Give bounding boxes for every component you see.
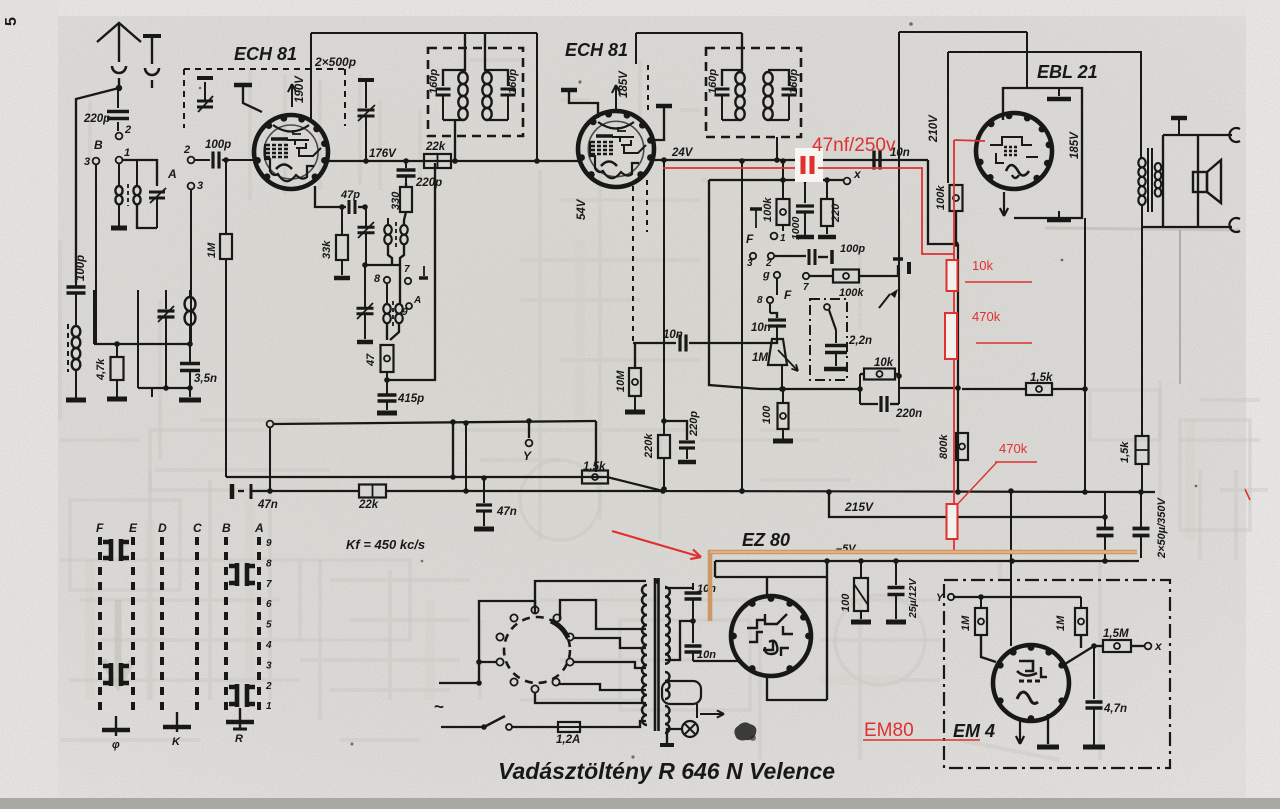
svg-text:A: A (413, 295, 421, 306)
pilot lamp loop (662, 681, 701, 704)
terminal Y (528, 421, 530, 438)
terminal X (1131, 645, 1144, 647)
IF transformer 2 dashed box (706, 48, 801, 137)
svg-text:9: 9 (266, 538, 272, 549)
band switch contact pair B-A upper (229, 563, 255, 586)
filter cap 1 2x50uF (1104, 492, 1106, 527)
svg-text:1,5M: 1,5M (1103, 628, 1129, 640)
terminal 3 AF (750, 253, 756, 259)
wire 270 to 47n bus (269, 427, 271, 491)
ghost boxes texture (70, 390, 1250, 710)
ground jack (143, 34, 161, 38)
EM4 ground right (1047, 714, 1049, 744)
selector feed wires (479, 601, 535, 683)
speaker (1193, 172, 1207, 192)
svg-text:415p: 415p (397, 393, 424, 405)
wire caps to tube heater (693, 660, 738, 662)
svg-text:220p: 220p (688, 411, 700, 437)
switch inside box (824, 304, 830, 310)
svg-text:7: 7 (404, 264, 410, 275)
mains live wire (439, 682, 479, 684)
ground 25uF (886, 620, 906, 625)
osc section wire y265 (365, 264, 400, 266)
wire HV bottom tap (665, 621, 693, 660)
power transformer heater winding 1 (665, 672, 670, 699)
wire y389 to parallel RC (782, 388, 860, 390)
selector top wire to transformer (535, 581, 646, 607)
svg-text:2×500p: 2×500p (314, 55, 356, 69)
svg-text:185V: 185V (1069, 131, 1081, 159)
svg-text:4: 4 (265, 640, 272, 651)
ferrite rod coil (75, 283, 77, 287)
ground 4.7n (1083, 745, 1105, 750)
oscillator transformer right coil (404, 212, 406, 225)
EZ80 right wire (826, 561, 828, 700)
selector tap wire 2 (560, 600, 646, 629)
svg-text:8: 8 (374, 273, 381, 285)
svg-text:470k: 470k (972, 309, 1001, 324)
mains switch (441, 726, 483, 728)
HV tap to rectifier caps (665, 587, 693, 589)
ground mid stem (151, 388, 153, 397)
ground ferrite coil (66, 398, 86, 403)
svg-text:~: ~ (434, 697, 444, 716)
47n bus C (230, 484, 235, 499)
top bus segment 3 (636, 32, 742, 34)
AVC bus A y422 (267, 421, 274, 428)
core dashes of coupling coil (127, 184, 129, 206)
EBL box top (948, 51, 1142, 53)
faded vertical below speaker (1179, 230, 1181, 384)
AM line to volume pot (689, 339, 777, 343)
svg-text:x: x (1154, 639, 1163, 653)
svg-text:10M: 10M (615, 370, 627, 392)
svg-text:F: F (746, 232, 754, 246)
EM4 dash-dot box (944, 580, 1170, 768)
svg-text:B: B (94, 138, 103, 152)
bar bottom in box (824, 367, 848, 372)
main bus y161 right of tube2 (650, 159, 928, 161)
terminal 2 mid (188, 157, 195, 164)
svg-text:2: 2 (183, 144, 190, 156)
svg-text:33k: 33k (321, 240, 333, 259)
svg-text:1M: 1M (206, 242, 218, 258)
svg-text:1M: 1M (960, 615, 972, 631)
red arrow to heater line (612, 531, 701, 557)
svg-text:54V: 54V (576, 198, 588, 220)
svg-text:190V: 190V (294, 75, 306, 103)
antenna symbol (97, 23, 141, 42)
svg-text:φ: φ (112, 739, 120, 751)
bar contact osc (419, 276, 428, 280)
svg-text:10k: 10k (874, 357, 894, 369)
svg-text:2: 2 (124, 124, 131, 136)
antenna coupling coil left (118, 164, 120, 186)
svg-text:100: 100 (761, 405, 773, 424)
svg-text:7: 7 (266, 579, 272, 590)
svg-text:47nf/250v: 47nf/250v (812, 135, 896, 156)
bar F small (750, 207, 762, 211)
svg-text:Kf = 450 kc/s: Kf = 450 kc/s (346, 537, 425, 552)
antenna coupling coil right (133, 186, 140, 204)
svg-text:47n: 47n (257, 499, 278, 511)
wire grid to 1.5M (1065, 646, 1094, 664)
output transformer feed (1140, 52, 1142, 158)
wire 466 between buses (465, 422, 467, 491)
svg-text:2×50µ/350V: 2×50µ/350V (1156, 496, 1168, 559)
tube EM4 (993, 645, 1069, 721)
parallel 10k 220n left node (859, 374, 861, 404)
svg-text:E: E (129, 521, 138, 535)
red grid wire (954, 140, 985, 141)
ground 220p AVC (678, 460, 696, 465)
svg-text:3: 3 (197, 180, 203, 192)
svg-text:220n: 220n (895, 408, 922, 420)
svg-text:R: R (235, 733, 243, 745)
red tick right margin (1245, 489, 1250, 500)
svg-text:47: 47 (365, 353, 377, 367)
svg-text:47p: 47p (340, 189, 360, 201)
wire terminal3 down to oscillator (190, 190, 192, 344)
screen capacitor top (1058, 88, 1060, 96)
red resistor 470k (945, 313, 957, 359)
IFT1 primary return to bus (454, 120, 456, 161)
parallel RC right node (898, 374, 900, 404)
svg-text:5: 5 (266, 620, 272, 631)
svg-text:4,7k: 4,7k (95, 358, 107, 381)
svg-text:100p: 100p (205, 139, 231, 151)
heater arrow (700, 713, 724, 715)
output transformer secondary (1155, 163, 1162, 197)
IFT2 primary coil (735, 72, 744, 120)
grid bar tube2 right (656, 104, 672, 109)
svg-text:B: B (222, 521, 231, 535)
voltage selector pins (531, 606, 538, 613)
svg-text:185V: 185V (618, 70, 630, 98)
speaker loop (1142, 226, 1198, 228)
svg-text:6: 6 (266, 599, 272, 610)
AVC wire down from bus (663, 161, 665, 435)
oscillator trimmer 1 (365, 207, 367, 226)
tube ECH81 first (254, 115, 328, 189)
svg-text:1M: 1M (752, 352, 768, 364)
ghost arrow bottom left (103, 600, 133, 685)
svg-text:10n: 10n (751, 322, 771, 334)
svg-text:8: 8 (266, 558, 272, 569)
ground 4.7k (107, 397, 127, 402)
B+ black bus (715, 560, 1139, 562)
wire Y to 1M (953, 596, 981, 598)
svg-text:ECH 81: ECH 81 (234, 44, 297, 64)
ground 10M (625, 410, 645, 415)
dashed AM-FM link below tube2 (632, 186, 634, 343)
junction wire y388 (138, 387, 190, 389)
wire bridge terminal1 to trimmer (123, 160, 157, 186)
ground 47n mid (474, 527, 494, 532)
svg-text:22k: 22k (358, 499, 379, 511)
ground 33k (334, 276, 350, 281)
resistor 1M AVC (225, 160, 227, 234)
wire bus to oscillator junction (94, 343, 190, 345)
svg-text:1M: 1M (1055, 615, 1067, 631)
svg-text:3: 3 (747, 258, 753, 269)
selector tap wire 3 (573, 638, 646, 648)
ground K column (115, 716, 117, 736)
pilot lamp (696, 704, 698, 718)
oscillator coil 2 right (395, 304, 402, 323)
EBL inner loop wires (1003, 88, 1082, 218)
detector line y180 (709, 179, 844, 181)
oscillator transformer core (395, 222, 397, 247)
svg-text:8: 8 (757, 295, 763, 306)
grid column black (957, 244, 959, 389)
lamp left lead (667, 729, 682, 743)
ground 100 filter (851, 620, 871, 625)
svg-text:A: A (167, 167, 177, 181)
trimmer capacitor antenna (149, 191, 165, 194)
svg-text:EZ 80: EZ 80 (742, 530, 790, 550)
dashed AVC line to tuning box (184, 68, 345, 70)
terminal 1 (116, 157, 123, 164)
IF transformer 1 dashed box (428, 48, 523, 136)
red wire from tube2 (663, 167, 797, 169)
grid bar tube2 left (561, 88, 577, 93)
EM4 cathode arrow (1019, 718, 1021, 744)
rectifier box top (714, 561, 716, 577)
svg-text:EBL 21: EBL 21 (1037, 62, 1098, 82)
ground 100 (773, 439, 793, 444)
wire 1085 vertical (1084, 218, 1086, 493)
svg-text:470k: 470k (999, 441, 1028, 456)
wire antenna to left column (76, 88, 119, 283)
wire 1142 down through 1.5k (1141, 227, 1143, 436)
ghost underline right (1045, 228, 1240, 230)
ground bar below coil (111, 226, 127, 231)
ground above speaker (1171, 116, 1187, 121)
ground 220 (826, 226, 828, 234)
svg-text:Y: Y (523, 449, 532, 463)
svg-text:100k: 100k (762, 197, 774, 222)
svg-text:25µ/12V: 25µ/12V (907, 578, 919, 619)
AGC bus B y477 (226, 477, 1155, 492)
wire RC to grid column (899, 387, 958, 389)
band switch wafer dashed columns (98, 537, 102, 712)
svg-text:24V: 24V (671, 147, 694, 159)
top bus segment left (311, 32, 537, 34)
power transformer primary coil (642, 585, 647, 725)
red resistor 10k (947, 260, 958, 291)
screen capacitor bottom (1058, 211, 1060, 218)
wire plate top (1026, 32, 1028, 88)
svg-text:10k: 10k (972, 258, 993, 273)
red resistor 470k lower (947, 504, 958, 539)
wire tube1 plate to top bus (310, 33, 312, 119)
svg-text:3: 3 (266, 660, 272, 671)
svg-text:3: 3 (84, 156, 90, 168)
IFT2 secondary coil (763, 72, 772, 120)
selector bottom wire (535, 692, 646, 703)
dashed link top (647, 64, 649, 110)
EZ80 bottom wire (767, 676, 827, 700)
svg-text:A: A (254, 521, 264, 535)
svg-text:47n: 47n (496, 506, 517, 518)
wire 742 bus to AGC (741, 161, 743, 491)
EM4 feed from B+ (1010, 491, 1012, 646)
ground 415p (377, 411, 397, 416)
svg-text:3,5n: 3,5n (194, 373, 217, 385)
fuse to transformer (580, 721, 646, 727)
ground R column (239, 708, 241, 728)
bus A drop to AGC bus (595, 421, 597, 472)
svg-text:K: K (172, 736, 181, 748)
white patch for red capacitor (795, 148, 823, 182)
band switch contact pair B-A lower (229, 684, 255, 707)
grid cap bar tube1 (234, 83, 252, 88)
svg-text:EM80: EM80 (864, 720, 914, 741)
selector wire left pin (479, 661, 497, 663)
svg-text:210V: 210V (928, 114, 940, 143)
svg-text:176V: 176V (369, 148, 397, 160)
band switch contact pair F-E top (103, 539, 129, 561)
ferrite coil winding (72, 326, 81, 370)
svg-text:x: x (853, 167, 862, 181)
variable capacitor 2 at top bus (358, 78, 374, 82)
bar contact right (907, 262, 911, 274)
tube ECH81 second (578, 111, 654, 187)
svg-text:2: 2 (265, 681, 272, 692)
output transformer primary (1138, 158, 1145, 205)
terminal 2 antenna (116, 133, 123, 140)
svg-text:220k: 220k (643, 433, 655, 459)
EBL box left (947, 52, 949, 183)
IFT1 primary coil (463, 70, 465, 72)
band switch contact pair F-E lower (103, 663, 129, 686)
wire IFT1 to tube2 grid (536, 33, 538, 161)
svg-text:7: 7 (803, 282, 809, 293)
svg-text:1: 1 (124, 147, 130, 159)
svg-text:215V: 215V (844, 500, 874, 514)
oscillator padder trimmer cap (165, 290, 167, 309)
detector feed drop (898, 32, 900, 376)
svg-text:ECH 81: ECH 81 (565, 40, 628, 60)
svg-text:800k: 800k (938, 434, 950, 459)
filter cap 2 (1140, 492, 1142, 527)
svg-text:1: 1 (266, 701, 272, 712)
cathode arrow EBL (1003, 192, 1005, 216)
feedback wire to bus (387, 163, 435, 380)
pot wiper to AM line (781, 365, 783, 389)
power transformer HV secondary (665, 587, 670, 664)
output transformer core (1147, 148, 1149, 212)
ink smudge (734, 722, 756, 740)
wire 1M top bridge (981, 596, 1081, 598)
IFT1 secondary coil (485, 33, 487, 72)
oscillator transformer left coil (384, 225, 391, 244)
svg-text:4,7n: 4,7n (1103, 703, 1127, 715)
tuning gang section variable capacitor 1 (204, 82, 206, 100)
svg-text:220p: 220p (83, 113, 110, 125)
terminal 7 (803, 273, 809, 279)
svg-text:D: D (158, 521, 167, 535)
svg-text:2,2n: 2,2n (848, 335, 872, 347)
red wire after cap (818, 168, 954, 254)
wire 709 down (709, 180, 782, 389)
selector tap wire 4 (573, 662, 646, 668)
tube EZ80 (731, 596, 811, 676)
svg-text:F: F (784, 288, 792, 302)
svg-text:C: C (193, 521, 202, 535)
terminal 2 AF (768, 253, 774, 259)
grid column to bus B (957, 389, 959, 493)
svg-text:100p: 100p (840, 243, 865, 255)
speaker terminal top (1229, 128, 1240, 142)
svg-text:1: 1 (780, 233, 786, 244)
svg-text:1,5k: 1,5k (1119, 441, 1131, 463)
svg-text:100: 100 (840, 593, 852, 612)
svg-text:Vadásztöltény R 646 N Velence: Vadásztöltény R 646 N Velence (498, 758, 835, 784)
speaker terminal bottom (1229, 218, 1240, 232)
oscillator coil (189, 290, 191, 297)
oscillator trimmer 2 (364, 265, 366, 307)
terminal 1 below 100k (782, 225, 784, 231)
red column (953, 140, 955, 551)
voltage selector dashed circle (504, 617, 570, 683)
tube EBL21 (976, 113, 1052, 189)
svg-text:100k: 100k (839, 287, 864, 299)
power transformer heater winding 2 (665, 706, 670, 733)
svg-text:1,2A: 1,2A (556, 734, 580, 746)
oscillator coil 2 left (386, 284, 388, 304)
main signal bus y161 left part (328, 160, 537, 162)
ink speckles (199, 22, 1198, 758)
flag symbol (879, 294, 890, 308)
svg-text:F: F (96, 521, 104, 535)
wire bus into tube2 grid (537, 160, 580, 162)
bus A drop at 453 (452, 422, 454, 477)
selector tap wire 5 (558, 684, 646, 690)
power transformer core (654, 578, 657, 731)
svg-text:g: g (762, 269, 770, 281)
svg-text:100k: 100k (935, 185, 947, 210)
terminal 3 mid (188, 183, 195, 190)
svg-text:2: 2 (765, 258, 772, 269)
ground 1000p (796, 235, 814, 240)
IFT2 secondary return (776, 137, 778, 160)
svg-text:22k: 22k (425, 141, 446, 153)
wire g down (776, 278, 778, 295)
orange heater bus highlight (710, 552, 1137, 621)
tube EZ80 top wire (715, 576, 827, 578)
wire terminal3 down (95, 165, 97, 344)
wire right coil down (400, 244, 404, 304)
voltage selector arc contact (551, 621, 568, 638)
red capacitor 47nf (801, 156, 806, 174)
ground middle column (176, 712, 178, 732)
wire coils to 47 resistor (390, 323, 399, 340)
ground 3.5n (179, 398, 201, 403)
bus corner down to AF (928, 160, 956, 244)
oscillator transformer 2 core (392, 301, 394, 326)
ground trimmer 2 (357, 340, 373, 345)
svg-text:100p: 100p (75, 255, 87, 281)
svg-text:220: 220 (830, 203, 842, 223)
switch box dash-dot (810, 299, 847, 380)
svg-text:5: 5 (3, 17, 20, 26)
top bus right (899, 31, 1027, 33)
svg-text:EM 4: EM 4 (953, 721, 995, 741)
terminal x AF out (844, 178, 851, 185)
svg-text:220p: 220p (415, 177, 442, 189)
